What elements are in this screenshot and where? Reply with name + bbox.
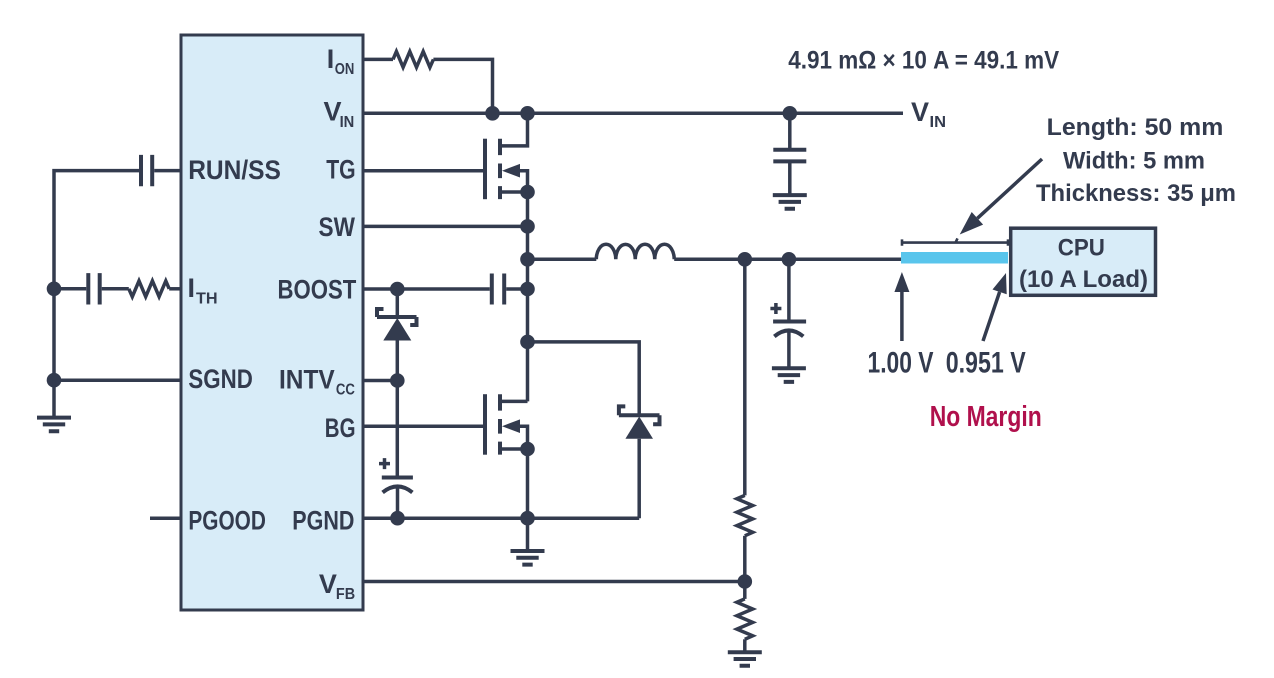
arrow 0.951V [983, 273, 1007, 341]
wire rail to ground [52, 380, 56, 417]
wire to inductor [528, 258, 597, 262]
svg-text:TG: TG [326, 155, 355, 185]
svg-text:I: I [327, 44, 335, 74]
wire PGND to ground [526, 518, 530, 550]
diode D1 bootstrap schottky [377, 289, 417, 381]
capacitor C-BOOST plates [492, 274, 504, 305]
svg-text:PGOOD: PGOOD [188, 506, 266, 536]
node dot output a [738, 252, 753, 267]
node dot Q2 source [520, 442, 535, 457]
wire BOOST pin [363, 287, 490, 291]
svg-text:0.951 V: 0.951 V [946, 346, 1026, 379]
IC U1 body [181, 35, 363, 610]
svg-text:CC: CC [336, 382, 355, 399]
node dot Q2 drain tap [520, 335, 535, 350]
transistor Q1 top NMOS [485, 113, 528, 199]
wire cap to rail [54, 287, 86, 291]
node dot INTVCC [390, 373, 405, 388]
wire TG pin [363, 169, 483, 173]
svg-text:Width: 5 mm: Width: 5 mm [1063, 148, 1205, 175]
svg-text:BG: BG [325, 413, 356, 443]
svg-text:V: V [319, 569, 337, 599]
svg-text:INTV: INTV [279, 364, 335, 394]
ground below Q2 [511, 551, 545, 565]
svg-text:PGND: PGND [292, 506, 354, 536]
svg-text:V: V [911, 97, 929, 127]
wire RUN/SS pin to cap [154, 169, 181, 173]
wire boost cap to rail [506, 287, 527, 291]
wire BG pin [363, 424, 483, 428]
svg-text:BOOST: BOOST [278, 275, 357, 305]
capacitor C-ITH plates [88, 273, 99, 304]
capacitor C-INTV polarized [379, 458, 413, 518]
svg-text:SGND: SGND [188, 364, 252, 394]
wire INTVCC rail to cap [396, 381, 400, 478]
wire SGND [54, 378, 181, 382]
wire PGND pin line [363, 516, 639, 520]
capacitor C-OUT polarized branch [770, 259, 806, 367]
resistor R-ITH [129, 281, 169, 297]
resistor R-ON [393, 52, 433, 68]
wire VFB pin line [363, 580, 745, 584]
pcb trace copper [901, 252, 1008, 264]
svg-text:4.91 mΩ × 10 A = 49.1 mV: 4.91 mΩ × 10 A = 49.1 mV [788, 46, 1059, 74]
wire ION pin [363, 58, 393, 62]
wire resistor to VIN line [433, 59, 492, 113]
wire SW pin [363, 225, 528, 229]
wire Q2 source to PGND [526, 449, 530, 518]
arrow annotation to trace [960, 159, 1042, 235]
capacitor C-SS plates [141, 155, 152, 186]
wire cap to left rail corner down [54, 171, 139, 381]
pcb trace dimension line [902, 238, 1008, 245]
svg-text:No Margin: No Margin [930, 401, 1042, 433]
CPU box [1011, 228, 1156, 295]
resistor R-FB1 [737, 495, 753, 535]
wire FB rail upper [743, 259, 747, 495]
capacitor C-VIN branch [773, 113, 806, 194]
svg-text:ON: ON [335, 61, 355, 78]
wire VIN pin line [363, 112, 903, 116]
svg-text:Length: 50 mm: Length: 50 mm [1047, 114, 1224, 141]
diode D2 schottky [619, 406, 660, 518]
wire ITH pin to resistor [169, 287, 181, 291]
wire inductor to output [674, 258, 901, 262]
resistor R-FB2 [737, 599, 753, 639]
svg-text:1.00 V: 1.00 V [868, 346, 934, 379]
wire rail Q1 source down to Q2 drain [526, 192, 530, 401]
svg-text:(10 A Load): (10 A Load) [1019, 266, 1148, 293]
node dot VIN b [520, 106, 535, 121]
node dot output b [782, 252, 797, 267]
node dot SGND rail [47, 373, 62, 388]
arrow 1.00V [894, 272, 909, 341]
node dot inductor tap [520, 252, 535, 267]
svg-text:TH: TH [196, 290, 218, 307]
node dot BOOST diode tap [390, 282, 405, 297]
node dot VIN a [485, 106, 500, 121]
node dot Q1 source [520, 185, 535, 200]
node dot PGND a [390, 511, 405, 526]
transistor Q2 bottom NMOS [485, 394, 528, 455]
wire to schottky branch [528, 342, 640, 415]
wire R2 to ground [743, 639, 747, 651]
svg-text:IN: IN [340, 114, 355, 131]
wire PGOOD stub [150, 516, 181, 520]
wire R1 to dot [743, 536, 747, 599]
ground OUT cap [772, 368, 806, 382]
svg-text:SW: SW [319, 212, 356, 242]
svg-text:Thickness: 35 μm: Thickness: 35 μm [1036, 180, 1236, 207]
node dot ITH rail [47, 282, 62, 297]
ground left [37, 418, 71, 432]
node dot VIN c [783, 106, 798, 121]
wire INTVCC pin [363, 379, 397, 383]
node dot SW [520, 219, 535, 234]
ground FB divider [728, 652, 762, 666]
svg-text:FB: FB [336, 586, 355, 603]
ground VIN cap [773, 195, 807, 209]
svg-text:IN: IN [930, 114, 947, 131]
node dot VFB [738, 574, 753, 589]
wire resistor to cap [102, 287, 129, 291]
svg-text:RUN/SS: RUN/SS [188, 155, 281, 185]
inductor L1 [596, 244, 674, 259]
node dot PGND b [520, 511, 535, 526]
svg-text:CPU: CPU [1058, 234, 1105, 261]
svg-text:I: I [188, 273, 196, 303]
node dot BOOST rail [520, 282, 535, 297]
